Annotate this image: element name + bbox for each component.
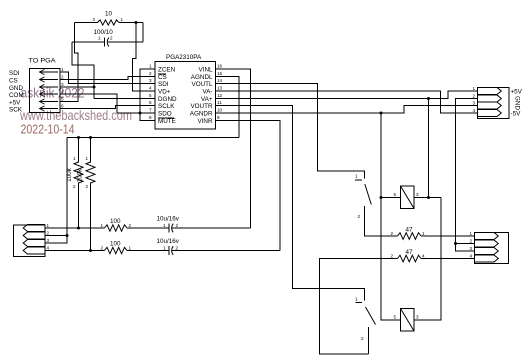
wire cap row left — [72, 41, 105, 43]
node junction input L load — [77, 227, 80, 230]
wire VD+ net: node down with jog to IC pin4 — [133, 23, 148, 92]
node junction AGNDR to relay gnd column — [380, 112, 383, 115]
svg-text:ZCEN: ZCEN — [158, 67, 176, 74]
svg-text:2: 2 — [73, 184, 76, 189]
wire VOUTR: IC11 right, long down, over to switch S2 — [224, 106, 365, 301]
svg-text:10: 10 — [105, 11, 113, 18]
X4 pin 3 arrow — [478, 102, 502, 109]
svg-text:3: 3 — [416, 192, 419, 197]
node junction R8 bus — [89, 136, 92, 139]
svg-text:COM: COM — [9, 92, 24, 99]
wire ground bus left down to input connector — [45, 138, 67, 244]
X1 pin 3 arrow — [40, 86, 58, 88]
svg-text:1: 1 — [121, 17, 124, 22]
wire SDI: X1-1 to IC pin3 — [60, 72, 148, 84]
wire +5V net: R1 left down and jog to connector +5V row — [60, 23, 78, 102]
svg-text:AGNDL: AGNDL — [191, 74, 213, 81]
svg-text:1: 1 — [86, 156, 89, 161]
X2 pin 1 arrow — [23, 225, 45, 232]
svg-text:1: 1 — [73, 156, 76, 161]
node junction input R load — [89, 249, 92, 252]
wire drive column down to K2 pin3 — [414, 198, 441, 321]
svg-text:4: 4 — [149, 86, 152, 91]
wire power GND pin2 down to output connector — [456, 99, 478, 244]
relay K2 coil — [401, 309, 415, 332]
svg-text:4: 4 — [470, 254, 473, 259]
X3 pin 1 arrow — [475, 233, 499, 240]
svg-text:6: 6 — [61, 104, 64, 109]
svg-text:1: 1 — [163, 246, 166, 251]
svg-text:1: 1 — [47, 223, 50, 228]
wire K1 pin3 to +5V column — [414, 197, 441, 199]
svg-text:TO PGA: TO PGA — [29, 58, 57, 65]
svg-text:1: 1 — [61, 67, 64, 72]
wire ZCEN/SDO/MUTE tie: IC pin1 down to pin7 and pin8 — [140, 69, 148, 121]
resistor R5 value 100 (upper) — [101, 218, 132, 231]
wire R7 top to bus — [78, 138, 80, 162]
wire VA+: IC12 to power pin1 — [224, 91, 478, 99]
connector X4 power — [478, 88, 510, 119]
node junction output gnd — [454, 242, 457, 245]
svg-text:CS: CS — [9, 78, 18, 85]
svg-text:1: 1 — [98, 36, 101, 41]
wire input row1 to R5 — [45, 227, 105, 229]
svg-text:1: 1 — [163, 223, 166, 228]
svg-text:SDO: SDO — [158, 111, 172, 118]
svg-text:SDI: SDI — [9, 70, 20, 77]
svg-text:3: 3 — [470, 246, 473, 251]
wire R3 to output pin1 — [421, 235, 475, 237]
X4 pin 4 arrow — [478, 110, 502, 117]
svg-text:2: 2 — [149, 71, 152, 76]
svg-text:1: 1 — [473, 86, 476, 91]
wire GND: X1-3 to DGND column — [60, 86, 94, 88]
svg-text:47: 47 — [406, 249, 414, 256]
svg-text:100: 100 — [110, 241, 121, 248]
connector X3 output — [475, 233, 509, 264]
svg-text:2: 2 — [391, 254, 394, 259]
wire R4 right to output pin4 — [421, 258, 475, 260]
svg-text:3: 3 — [61, 82, 64, 87]
X3 pin 2 arrow — [475, 240, 499, 247]
svg-text:4: 4 — [47, 246, 50, 251]
switch S2 contact 1 — [356, 302, 363, 304]
wire R7 bottom to input row1 — [78, 184, 80, 228]
wire R1 left — [75, 22, 98, 24]
wire R1 right down to cap row — [142, 23, 144, 43]
svg-text:VA-: VA- — [202, 89, 212, 96]
svg-text:GND: GND — [513, 96, 520, 110]
wire S1 pin2 down to R3 row — [365, 206, 398, 236]
wire SCLK: X1-6 to IC pin6 with jog — [60, 106, 148, 109]
resistor R8 value 100k (right vertical) — [77, 156, 96, 189]
svg-text:2: 2 — [361, 336, 364, 341]
wire DGND row into IC pin5 — [94, 98, 148, 100]
svg-text:100k: 100k — [77, 168, 84, 183]
wire R6 right to cap C3 — [127, 250, 169, 252]
wire output gnd pin3 jog — [456, 244, 475, 252]
resistor R4 value 47 (lower) — [391, 249, 426, 262]
svg-text:1: 1 — [101, 223, 104, 228]
svg-text:1: 1 — [422, 231, 425, 236]
node junction SDO — [139, 112, 142, 115]
node junction K1 gnd — [380, 196, 383, 199]
svg-text:SDI: SDI — [158, 81, 169, 88]
wire relay gnd column — [381, 113, 401, 320]
svg-text:VINL: VINL — [199, 67, 213, 74]
U1 left pin stubs 1-8 — [148, 69, 156, 121]
svg-text:VA+: VA+ — [201, 96, 213, 103]
capacitor C2 value 10u/16v — [157, 216, 180, 233]
wire C3 right to VINR column — [172, 250, 280, 252]
svg-text:2: 2 — [470, 239, 473, 244]
svg-text:10u/16v: 10u/16v — [157, 238, 180, 245]
svg-text:VINR: VINR — [197, 118, 212, 125]
X1 pin 1 arrow — [40, 71, 58, 73]
svg-text:MUTE: MUTE — [158, 118, 176, 125]
svg-text:2: 2 — [473, 94, 476, 99]
svg-text:13: 13 — [217, 86, 223, 91]
capacitor C3 value 10u/16v — [157, 238, 180, 255]
wire input GND pin2 stub — [45, 235, 67, 237]
X4 pin 2 arrow — [478, 95, 502, 102]
svg-text:3: 3 — [473, 101, 476, 106]
svg-text:SCK: SCK — [9, 107, 23, 114]
capacitor C1 value 100/10 — [94, 29, 114, 47]
svg-text:1: 1 — [470, 231, 473, 236]
svg-text:1: 1 — [129, 246, 132, 251]
svg-text:9: 9 — [217, 115, 220, 120]
wire K1 pin5 to gnd column — [381, 197, 401, 199]
X3 pin 3 arrow — [475, 248, 499, 255]
svg-text:5: 5 — [394, 315, 397, 320]
resistor R7 value 100k (left vertical) — [66, 156, 83, 189]
svg-text:100: 100 — [110, 218, 121, 225]
svg-text:12: 12 — [217, 93, 223, 98]
svg-text:SCLK: SCLK — [158, 103, 175, 110]
wire AGNDR: IC10 right to power pin3 with jog — [224, 106, 478, 114]
wire VINL: IC16 right and down to input row1 — [224, 69, 251, 228]
svg-text:2: 2 — [61, 75, 64, 80]
wire GND net: cap left down, over to DGND column — [72, 42, 94, 99]
svg-text:-5V: -5V — [511, 111, 522, 118]
switch S2 blade — [366, 307, 376, 325]
resistor R6 value 100 (lower) — [101, 241, 132, 254]
node junction VA+ relay feed — [427, 97, 430, 100]
X1 pin 5 arrow — [40, 101, 58, 103]
resistor R1 value 10 (top) — [93, 11, 124, 26]
svg-text:4: 4 — [422, 254, 425, 259]
wire input row4 to R6 — [45, 250, 105, 252]
switch S1 contact 1 — [355, 179, 362, 181]
svg-text:16: 16 — [217, 64, 223, 69]
switch S1 blade — [365, 184, 372, 205]
svg-text:5: 5 — [394, 192, 397, 197]
svg-text:+5V: +5V — [511, 89, 523, 96]
svg-text:2: 2 — [391, 231, 394, 236]
svg-text:www.thebackshed.com: www.thebackshed.com — [19, 107, 132, 123]
svg-text:VD+: VD+ — [158, 89, 171, 96]
U1 right pin stubs 16-9 — [216, 69, 225, 121]
svg-text:asknik 2022: asknik 2022 — [21, 86, 85, 101]
X1 pin 2 arrow — [40, 79, 58, 81]
svg-text:47: 47 — [406, 227, 414, 234]
svg-text:1: 1 — [149, 64, 152, 69]
svg-text:15: 15 — [217, 71, 223, 76]
svg-text:1: 1 — [355, 174, 358, 179]
svg-text:VOUTR: VOUTR — [190, 103, 212, 110]
U1 CS overline — [158, 73, 166, 75]
svg-text:1: 1 — [355, 297, 358, 302]
svg-text:VOUTL: VOUTL — [192, 81, 213, 88]
svg-text:6: 6 — [149, 100, 152, 105]
wire R8 bottom to input row4 — [90, 184, 92, 251]
svg-text:+5V: +5V — [9, 100, 21, 107]
node junction GND row at x94 — [93, 86, 96, 89]
wire R8 top to bus — [90, 138, 92, 162]
svg-text:4: 4 — [61, 89, 64, 94]
svg-text:AGNDR: AGNDR — [190, 111, 213, 118]
svg-text:2: 2 — [101, 246, 104, 251]
X2 pin 2 arrow — [23, 232, 45, 239]
svg-text:5: 5 — [61, 97, 64, 102]
wire R4 left to switch S2 — [320, 259, 398, 355]
wire cap row right — [108, 41, 143, 43]
svg-text:2: 2 — [110, 36, 113, 41]
svg-text:10u/16v: 10u/16v — [157, 216, 180, 223]
svg-text:2: 2 — [358, 214, 361, 219]
U1 MUTE overline — [158, 117, 174, 119]
svg-text:5: 5 — [149, 93, 152, 98]
wire CS: X1-2 to IC pin2 with jog — [60, 77, 148, 80]
wire AGNDL: IC15 down to ground bus — [224, 77, 239, 138]
X4 pin 1 arrow — [478, 88, 502, 95]
wire VINR: IC9 right and down to input row4 — [224, 121, 280, 251]
svg-text:2: 2 — [176, 223, 179, 228]
wire relay drive column from VA+ node — [428, 99, 430, 198]
X2 pin 3 arrow — [23, 240, 45, 247]
svg-text:4: 4 — [473, 108, 476, 113]
X1 pin 4 arrow — [40, 93, 58, 95]
svg-text:100k: 100k — [66, 167, 73, 182]
relay K1 coil — [401, 186, 415, 209]
wire VA-: IC13 to power pin4 — [224, 91, 478, 113]
X3 pin 4 arrow — [475, 255, 499, 262]
svg-text:14: 14 — [217, 78, 223, 83]
wire COM: X1-4 down to SDO row — [60, 94, 140, 113]
svg-text:2022-10-14: 2022-10-14 — [21, 123, 75, 137]
svg-text:DGND: DGND — [158, 96, 177, 103]
svg-text:2: 2 — [93, 17, 96, 22]
svg-text:GND: GND — [9, 85, 23, 92]
node junction K1 drive — [427, 196, 430, 199]
svg-text:2: 2 — [176, 246, 179, 251]
resistor R3 value 47 (upper) — [391, 227, 426, 240]
svg-text:8: 8 — [149, 115, 152, 120]
svg-text:2: 2 — [129, 223, 132, 228]
svg-text:PGA2310PA: PGA2310PA — [166, 54, 202, 61]
wire VOUTL: IC14 right, down, over to switch S1 — [224, 84, 365, 179]
connector X2 input — [14, 225, 46, 257]
node junction input gnd — [66, 234, 69, 237]
node junction at R1 right — [135, 21, 138, 24]
wire ground bus horizontal — [67, 137, 239, 139]
wire R5 right to cap C2 — [127, 227, 169, 229]
svg-text:2: 2 — [47, 231, 50, 236]
X1 pin 6 arrow — [40, 108, 58, 110]
svg-text:2: 2 — [86, 184, 89, 189]
wire R1 right to node — [119, 22, 143, 24]
svg-text:3: 3 — [416, 315, 419, 320]
svg-text:10: 10 — [217, 108, 223, 113]
svg-text:3: 3 — [149, 78, 152, 83]
svg-text:7: 7 — [149, 108, 152, 113]
svg-text:3: 3 — [47, 238, 50, 243]
node junction R7 bus — [77, 136, 80, 139]
wire C2 right to VINL column — [172, 227, 251, 229]
svg-text:11: 11 — [217, 100, 222, 105]
svg-text:CS: CS — [158, 74, 167, 81]
X2 pin 4 arrow — [23, 247, 45, 254]
